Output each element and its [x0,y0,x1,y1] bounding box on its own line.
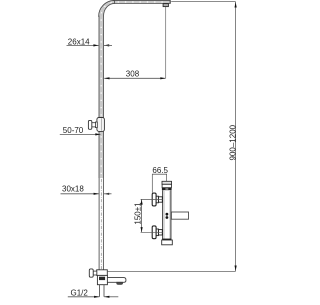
shower arm tube (horizontal, top) [114,0,171,4]
wall bracket knob [88,120,97,129]
diverter upper body [97,270,108,276]
highlight dash marks along upper tube and arm [101,2,167,174]
svg-text:308: 308 [126,70,140,79]
dimension 30x18 line [61,193,112,195]
extension line from shower head down to 308 dimension [165,7,167,78]
riser rail upper section (gray tube 26x14) [99,16,104,179]
valve bottom cap [162,240,173,245]
diverter lower body [97,275,107,284]
elbow (tube curve top-left) [99,0,115,16]
svg-text:50-70: 50-70 [63,126,84,135]
svg-text:66.5: 66.5 [152,166,168,175]
shower head connector under arm end [163,4,168,7]
svg-text:30x18: 30x18 [62,184,84,193]
inlet pipe below diverter [100,285,105,297]
svg-text:G1/2: G1/2 [71,289,89,298]
diverter handle (left) [89,269,96,277]
valve outlet pipe to wall [171,212,188,219]
svg-text:26x14: 26x14 [68,37,90,46]
svg-text:900–1200: 900–1200 [228,124,237,160]
dimension 26x14 line [67,44,113,46]
extension line bottom (spout body to overall dimension) [107,270,235,272]
valve top knob [141,193,163,206]
overall dimension 900-1200 vertical line [235,2,237,271]
dimension 50-70 line [60,133,101,135]
dimension G1/2 line [68,296,119,298]
dimension 150±1 line [141,199,143,232]
tub spout [107,278,126,285]
thermostatic valve top witness lines for 66.5 [152,174,167,193]
valve buttons (two dots) [166,213,169,219]
valve body [162,190,171,239]
dimension 308 line [104,77,165,79]
svg-text:150±1: 150±1 [133,202,142,225]
riser rail lower section (outlined tube 30x18) [99,178,104,270]
valve bottom knob [141,226,163,239]
extension line top (arm end to overall dimension) [171,1,235,3]
valve top cap stack [162,181,172,190]
wall bracket slider on rail [97,118,105,132]
